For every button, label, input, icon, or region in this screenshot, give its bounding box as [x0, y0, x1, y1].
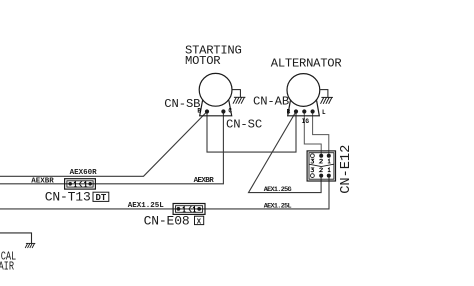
svg-text:C: C [228, 108, 232, 115]
wire: alternator IG to CN-E12 pin 2 top [304, 112, 321, 156]
CN-E12 bottom pin 1 [327, 174, 331, 178]
alternator pin B [294, 109, 298, 113]
CN-E0B pin digit 1 (right) [193, 207, 196, 212]
svg-text:CN-E08: CN-E08 [144, 214, 190, 229]
wire: alternator L to CN-E12 pin 1 top [313, 112, 329, 156]
svg-text:AEX1.25L: AEX1.25L [128, 202, 165, 210]
CN-T13 pin dot left [68, 182, 72, 186]
connector CN-E12 [307, 151, 335, 181]
alternator G: circle [287, 74, 320, 107]
svg-text:DT: DT [96, 193, 107, 203]
svg-text:CN-AB: CN-AB [253, 95, 289, 109]
starting motor M: circle [199, 73, 232, 106]
svg-text:AEX60R: AEX60R [70, 169, 98, 177]
CN-T13 pin digit 1 (left) [74, 182, 77, 187]
CN-E12 top digits 3 2 1 [311, 159, 314, 163]
svg-text:CN-T13: CN-T13 [45, 190, 91, 205]
CN-E0B pin dot right [197, 207, 201, 211]
connector CN-AB: trapezoid on alternator [288, 101, 320, 116]
svg-text:CN-E12: CN-E12 [339, 145, 354, 194]
svg-text:AEXBR: AEXBR [31, 178, 54, 186]
svg-text:AEXBR: AEXBR [194, 177, 215, 185]
svg-text:CN-SB: CN-SB [164, 97, 200, 111]
wire AEX60R: bus to starting motor pin B [0, 112, 207, 177]
wire AEX1.25L: bus through CN-E0B to CN-E12 pin 1 [0, 176, 329, 209]
CN-E12 bottom pin 3 (empty) [311, 174, 315, 178]
starting motor pin C [221, 109, 225, 113]
alternator pin L [311, 109, 315, 113]
connector CN-SB: trapezoid on starting motor [200, 100, 232, 116]
wire AEXBR: bus through CN-T13 to starting motor pin C [0, 112, 223, 184]
code box X [195, 216, 204, 224]
starting motor pin B [205, 109, 209, 113]
svg-text:AEX1.25G: AEX1.25G [264, 186, 292, 194]
ground (bottom left) [25, 243, 35, 248]
CN-T13 pin digit 1 (right) [84, 182, 87, 187]
svg-text:AIR: AIR [0, 260, 14, 274]
svg-text:MOTOR: MOTOR [185, 54, 220, 68]
wire AEX1.25G: alternator B to CN-E12 pin 2 [249, 112, 322, 193]
ground (alternator) [320, 90, 333, 104]
alternator pin IG [302, 109, 306, 113]
CN-E12 top pin 3 (empty) [311, 154, 315, 158]
svg-text:IG: IG [302, 118, 310, 125]
svg-text:B: B [287, 109, 291, 116]
svg-text:AEX1.25L: AEX1.25L [264, 202, 292, 210]
CN-E12 bottom digits 3 2 1 [311, 168, 314, 172]
svg-text:ALTERNATOR: ALTERNATOR [271, 56, 342, 70]
CN-E0B pin dot left [177, 207, 181, 211]
CN-E0B pin digit 1 (left) [183, 207, 186, 212]
svg-text:L: L [322, 109, 326, 116]
svg-text:X: X [197, 219, 202, 227]
wire: starting motor B to alternator B [207, 112, 296, 153]
CN-E12 top pin 2 [319, 154, 323, 158]
code box DT [93, 192, 109, 201]
CN-T13 pin dot right [88, 182, 92, 186]
ground (starting motor) [232, 90, 246, 104]
connector CN-E0B [173, 204, 205, 215]
svg-text:CN-SC: CN-SC [226, 117, 262, 131]
connector CN-T13 [65, 179, 96, 189]
wire: bottom-left to ground [0, 233, 32, 244]
CN-E12 bottom pin 2 [319, 174, 323, 178]
CN-E12 top pin 1 [327, 154, 331, 158]
